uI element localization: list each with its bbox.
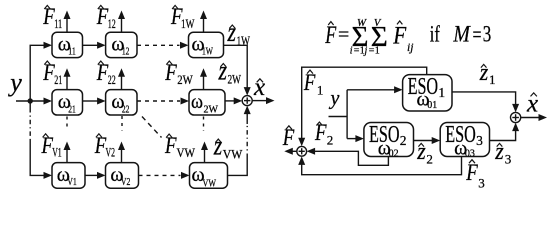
wire ωV2 to ωVW (dashed) [139, 172, 190, 179]
wire S2 output F̂ (left arrow) [284, 148, 297, 155]
svg-text:z: z [213, 131, 223, 161]
svg-text:2: 2 [400, 133, 407, 148]
wire F̂21 up arrow [64, 68, 71, 89]
svg-text:1W: 1W [237, 33, 251, 48]
block ω1W [189, 32, 224, 58]
label ẑ3 [494, 139, 511, 167]
wire F̂1 feedback: ESO1 top to summer S2 [298, 67, 427, 146]
svg-text:VW: VW [203, 178, 217, 189]
wire ESO2 output ẑ2 to ESO3 [414, 137, 441, 144]
svg-text:22: 22 [122, 104, 129, 115]
block ω21 [52, 90, 83, 116]
label ẑ1 [479, 60, 496, 87]
wire F̂1W up arrow [200, 11, 207, 33]
svg-text:3: 3 [476, 133, 483, 148]
wire ESO3 output ẑ3 to summer S3 [490, 123, 520, 141]
block ω22 [106, 90, 137, 116]
svg-text:z: z [227, 17, 237, 47]
svg-text:V2: V2 [106, 145, 116, 160]
wire S3 output to x̂ [521, 114, 547, 121]
wire y to ESO2 [347, 135, 364, 142]
wire F̂22 up arrow [118, 68, 125, 89]
wire dashed diagonal ellipsis [142, 117, 162, 138]
svg-text:1: 1 [375, 46, 380, 57]
label F̂11 [42, 4, 62, 31]
svg-text:i: i [350, 46, 353, 57]
svg-text:11: 11 [54, 16, 62, 31]
wire ω11 to ω12 [83, 42, 106, 49]
label ẑ2 [416, 139, 433, 167]
svg-text:03: 03 [465, 148, 475, 160]
svg-text:z: z [218, 56, 228, 86]
svg-text:if: if [430, 22, 440, 47]
svg-text:F: F [325, 22, 337, 49]
svg-text:1: 1 [438, 85, 445, 100]
label F̂22 [96, 60, 116, 87]
equation F̂ = ΣΣ F̂ij if M = 3 [325, 18, 492, 57]
label F̂ [282, 125, 295, 150]
svg-text:3: 3 [483, 22, 492, 47]
wire ω12 to ω1W (dashed) [137, 42, 189, 49]
block ω2W [189, 90, 225, 116]
svg-text:M: M [453, 22, 472, 47]
wire y to ESO1 [347, 86, 403, 93]
svg-text:11: 11 [68, 47, 76, 58]
label x̂ (left) [253, 74, 265, 101]
label F̂2 [314, 120, 333, 147]
svg-text:1W: 1W [181, 16, 195, 31]
wire y input to ω21 [16, 98, 52, 105]
svg-text:1: 1 [317, 82, 324, 97]
svg-text:2W: 2W [228, 71, 242, 86]
summing junction S3 [510, 112, 520, 122]
svg-text:V1: V1 [67, 177, 77, 188]
svg-text:VW: VW [177, 145, 196, 160]
block ω11 [52, 32, 83, 58]
label F̂1W [170, 4, 195, 31]
svg-text:y: y [329, 88, 340, 110]
label F̂1 [303, 70, 323, 97]
wire dashed continuation below ω21 [66, 117, 68, 128]
svg-text:22: 22 [108, 72, 116, 87]
svg-text:1: 1 [489, 72, 496, 87]
label F̂3 [465, 160, 484, 191]
label x̂ (right) [526, 91, 538, 118]
wire dashed continuation below ω2W [203, 117, 205, 132]
summing junction S1 [242, 96, 252, 106]
wire ω1W output down to summer S1 (ẑ1W) [224, 45, 251, 95]
wire ω21 to ω22 [83, 98, 106, 105]
wire ωVW output up to summer S1 (ẑVW, dash-dot middle) [228, 106, 251, 176]
svg-text:F: F [392, 23, 406, 50]
svg-text:y: y [7, 68, 22, 97]
wire dashed continuation below ω22 [121, 116, 123, 131]
block ESO2 (ω02) [364, 122, 414, 160]
label F̂21 [42, 60, 62, 87]
svg-text:V1: V1 [52, 145, 62, 160]
svg-text:12: 12 [122, 47, 129, 58]
wire F̂V2 up arrow [118, 142, 125, 163]
label F̂VW [164, 133, 195, 160]
svg-text:F: F [303, 70, 316, 95]
svg-text:21: 21 [54, 72, 62, 87]
summing junction S2 [297, 146, 307, 156]
svg-text:3: 3 [478, 176, 485, 191]
node junction on y wire [28, 98, 33, 103]
wire F̂2 feedback: ESO2 bottom to S2 [307, 148, 389, 166]
svg-text:=: = [338, 24, 349, 46]
svg-text:3: 3 [505, 152, 512, 167]
wire F̂VW up arrow [201, 142, 208, 163]
wire F̂2W up arrow [200, 68, 207, 89]
svg-text:=: = [473, 22, 482, 47]
svg-text:21: 21 [68, 104, 76, 115]
wire ω22 to ω2W (dashed) [137, 98, 189, 105]
wire y branch vertical [346, 90, 348, 139]
wire F̂12 up arrow [118, 11, 125, 33]
svg-text:2W: 2W [177, 72, 193, 87]
svg-text:2W: 2W [204, 104, 219, 115]
label F̂V2 [94, 133, 115, 160]
block ωV1 [52, 163, 85, 189]
block ESO1 (ω01) [403, 74, 452, 111]
svg-text:x: x [253, 74, 265, 101]
label F̂V1 [41, 133, 62, 160]
wire S1 output to x̂ [252, 97, 274, 104]
block ωV2 [106, 163, 139, 189]
svg-text:F: F [282, 125, 295, 150]
label ẑVW [213, 131, 243, 162]
label ẑ1W [227, 17, 251, 48]
wire junction up to ω11 [30, 42, 52, 101]
label ẑ2W [218, 56, 242, 87]
wire junction down to ωV1 (dash-dot middle) [30, 101, 52, 179]
svg-text:2: 2 [426, 152, 433, 167]
wire y stub [329, 116, 348, 118]
block ωVW [190, 163, 228, 190]
wire F̂V1 up arrow [64, 142, 71, 163]
wire ω2W output to summer S1 (ẑ2W) [225, 97, 242, 104]
svg-text:12: 12 [108, 16, 116, 31]
svg-text:ij: ij [407, 40, 414, 54]
label F̂2W [164, 60, 193, 87]
svg-text:1W: 1W [202, 47, 213, 58]
svg-text:VW: VW [223, 146, 243, 161]
wire F̂11 up arrow [64, 11, 71, 33]
block ESO3 (ω03) [440, 122, 489, 160]
svg-text:2: 2 [327, 132, 334, 147]
svg-text:F: F [465, 160, 478, 185]
wire ESO1 output ẑ1 to summer S3 [452, 92, 519, 113]
block ω12 [106, 32, 137, 58]
wire ωV1 to ωV2 [85, 172, 106, 179]
svg-text:01: 01 [427, 99, 437, 111]
label F̂12 [96, 4, 116, 31]
svg-text:02: 02 [389, 148, 399, 160]
svg-text:V2: V2 [121, 177, 130, 188]
svg-text:ω: ω [191, 91, 203, 113]
wire F̂3 feedback: ESO3 bottom to S2 [298, 156, 461, 174]
